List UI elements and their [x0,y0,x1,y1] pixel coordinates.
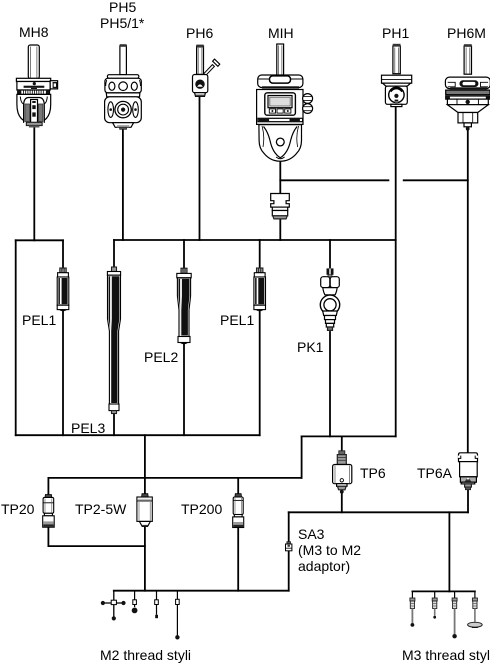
wire PH1 down [395,107,397,437]
wire PH6 down [199,96,201,240]
wire mid bottom horizontal [289,511,468,513]
wire PH6M down [467,127,469,453]
extension bar PEL1 left [57,268,69,311]
wire PK1 bottom [329,332,331,436]
wire step vertical [301,436,303,478]
svg-text:(M3 to M2: (M3 to M2 [298,542,361,558]
svg-text:MH8: MH8 [19,24,49,40]
probe head PH5 [105,44,142,129]
wire TP6 drop [341,436,343,454]
svg-text:TP6A: TP6A [417,465,453,481]
wire TP6 stylus link [341,493,343,512]
probe head PH6M [445,44,490,130]
svg-text:MIH: MIH [268,25,294,41]
svg-text:PK1: PK1 [297,339,324,355]
svg-text:M3 thread styli: M3 thread styli [402,647,490,663]
wire M2 rail [114,590,289,592]
wire TP row horizontal [48,477,301,479]
M2 stylus ball [132,591,138,614]
wire PEL1b top stub [259,240,261,268]
wire TP20 drop [47,478,49,495]
svg-text:PH6: PH6 [186,25,213,41]
svg-text:TP2-5W: TP2-5W [75,501,127,517]
probe head MIH [257,44,313,161]
wire left top horizontal [16,239,63,241]
M3 stylus 2 [432,591,437,618]
wire PH5 down [122,129,124,240]
wire TP2-5W drop [144,435,146,494]
wire MIH to adaptor [279,162,281,194]
svg-text:PH5: PH5 [109,0,136,15]
wire PEL1 top stub [62,240,64,268]
M2 stylus pin [155,591,159,619]
probe head PH6 [193,45,220,97]
wire PEL2 bottom [183,343,185,435]
wire MH8 down [33,127,35,240]
wire MIH-PH6M cross left [280,179,388,181]
wire PEL1 bottom [62,310,64,436]
M3 stylus 3 [452,591,457,638]
svg-text:PEL2: PEL2 [144,349,178,365]
svg-text:PEL1: PEL1 [22,312,56,328]
probe head PH1 [382,44,412,107]
wire PEL1b bottom [259,310,261,435]
wire PEL2 top stub [183,240,185,268]
wire TP2-5W stylus down [144,526,146,590]
wire TP200 drop [237,478,239,494]
extension bar PEL3 [107,267,120,414]
wire PK1 top stub [329,240,331,268]
wire adaptor down [279,219,281,240]
svg-text:TP200: TP200 [181,501,222,517]
wire M3 drop [448,512,450,591]
svg-text:PEL1: PEL1 [220,312,254,328]
M3 stylus disc [468,591,483,627]
wire MIH-PH6M cross right [404,179,468,181]
wire TP200 stylus down [237,528,239,591]
svg-text:PH5/1*: PH5/1* [100,15,145,31]
wire main top horizontal [114,239,396,241]
adaptor SA3 [286,542,292,551]
wire PEL3 top stub [113,240,115,268]
svg-text:TP20: TP20 [1,501,35,517]
svg-text:PH6M: PH6M [447,25,486,41]
probe TP2-5W [137,494,152,527]
wire TP20 stylus link [48,527,144,546]
M2 stylus star [101,591,126,621]
probe TP6A [458,453,478,490]
M2 stylus long pin [175,591,179,640]
probe PK1 [320,268,339,330]
wire left box edge [15,240,17,435]
M3 stylus 1 [410,591,415,626]
wire TP6A link [467,490,469,513]
svg-text:TP6: TP6 [360,465,386,481]
wire SA3 lower [288,551,290,591]
probe head MH8 [16,45,57,128]
wire bottom rail left [16,434,260,436]
wire bottom rail right [302,435,396,437]
wire PEL3 bottom [113,414,115,436]
probe TP200 [233,494,244,528]
svg-text:PH1: PH1 [382,25,409,41]
svg-text:M2 thread styli: M2 thread styli [100,647,191,663]
svg-text:adaptor): adaptor) [298,558,350,574]
svg-text:PEL3: PEL3 [71,420,105,436]
extension bar PEL2 [177,268,191,344]
extension bar PEL1 right [254,268,266,311]
probe TP6 [333,451,352,494]
wire M3 rail [412,590,475,592]
wire SA3 upper [288,512,290,541]
svg-text:SA3: SA3 [298,526,325,542]
shank adaptor below MIH [271,194,290,219]
probe TP20 [43,495,55,528]
